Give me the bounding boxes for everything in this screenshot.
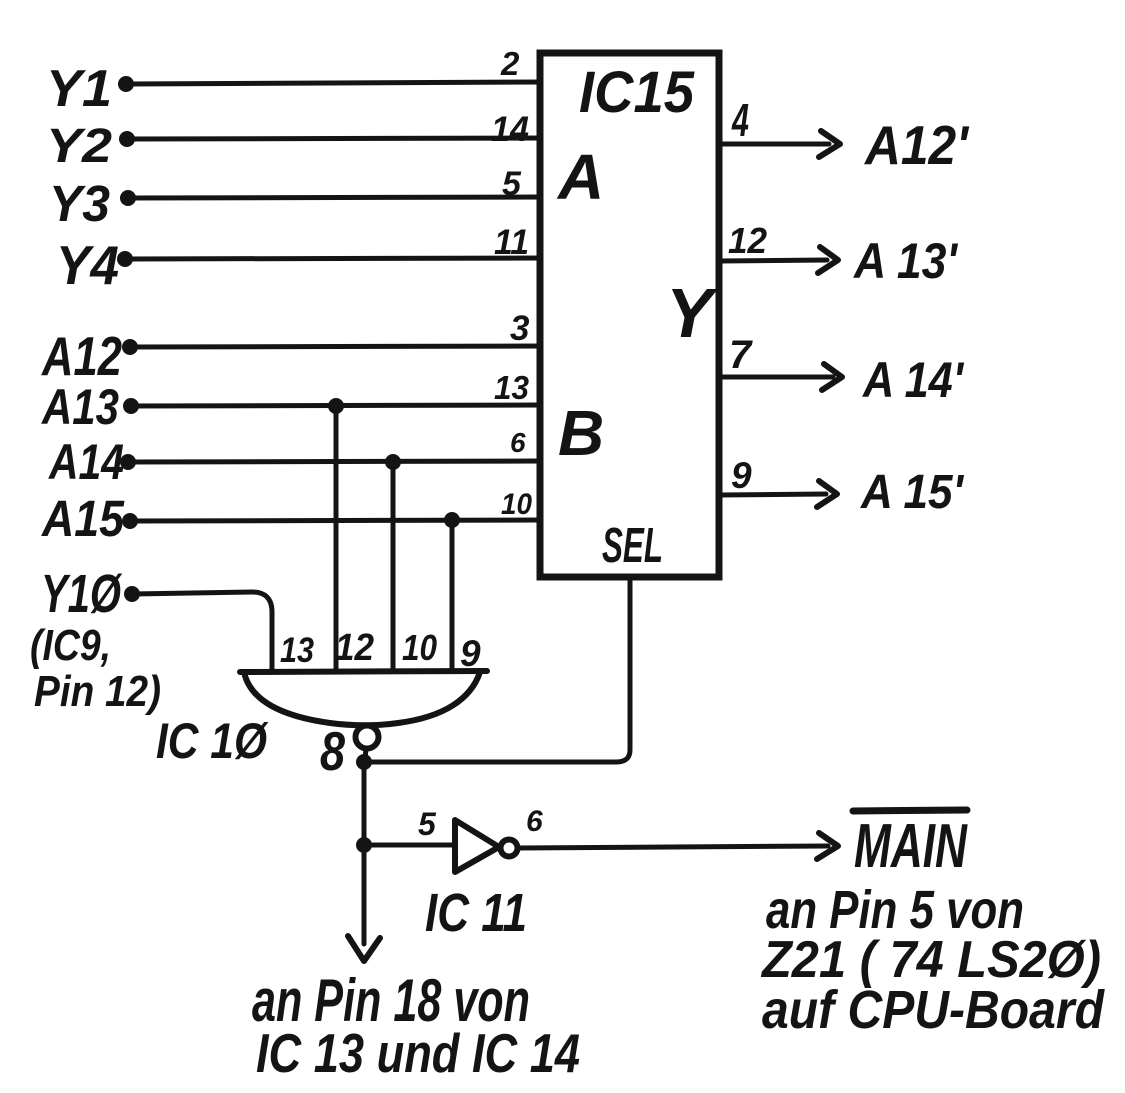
svg-text:6: 6 [510, 427, 526, 458]
svg-text:7: 7 [729, 333, 753, 377]
svg-text:A: A [556, 141, 604, 213]
svg-text:A 15': A 15' [860, 466, 964, 519]
svg-text:Y4: Y4 [56, 234, 119, 296]
svg-text:Pin 12): Pin 12) [34, 667, 161, 716]
svg-text:Y3: Y3 [49, 175, 110, 232]
svg-text:6: 6 [526, 805, 543, 838]
svg-text:Y1: Y1 [46, 60, 112, 118]
svg-text:Y: Y [666, 274, 718, 352]
svg-text:B: B [558, 397, 604, 469]
svg-text:9: 9 [731, 455, 752, 496]
svg-text:auf CPU-Board: auf CPU-Board [762, 980, 1105, 1040]
svg-text:3: 3 [510, 309, 530, 348]
svg-text:SEL: SEL [602, 519, 663, 573]
svg-text:A12: A12 [40, 325, 122, 387]
svg-text:Y1Ø: Y1Ø [41, 564, 122, 624]
svg-text:A12': A12' [863, 114, 970, 176]
svg-text:10: 10 [402, 627, 437, 668]
svg-text:A14: A14 [47, 434, 124, 490]
svg-text:14: 14 [491, 110, 529, 149]
svg-text:A 13': A 13' [852, 233, 959, 289]
svg-text:IC 13 und IC 14: IC 13 und IC 14 [256, 1022, 580, 1084]
svg-text:Y2: Y2 [46, 120, 112, 173]
svg-text:IC 11: IC 11 [425, 883, 527, 943]
svg-text:8: 8 [320, 720, 345, 782]
svg-text:IC 1Ø: IC 1Ø [156, 713, 269, 769]
svg-text:MAIN: MAIN [854, 812, 968, 881]
svg-text:2: 2 [500, 45, 520, 82]
svg-text:(IC9,: (IC9, [30, 621, 111, 670]
svg-text:IC15: IC15 [579, 60, 695, 125]
svg-text:13: 13 [494, 369, 529, 406]
svg-text:4: 4 [731, 94, 749, 146]
svg-text:5: 5 [418, 806, 437, 842]
svg-text:11: 11 [494, 223, 529, 262]
svg-text:A15: A15 [40, 490, 124, 547]
svg-text:5: 5 [502, 165, 522, 203]
svg-text:12: 12 [335, 627, 374, 669]
svg-text:10: 10 [501, 488, 532, 521]
svg-text:13: 13 [280, 631, 314, 670]
svg-text:A13: A13 [40, 379, 119, 435]
svg-text:A 14': A 14' [861, 352, 965, 408]
svg-text:12: 12 [728, 220, 767, 261]
svg-text:9: 9 [460, 633, 481, 674]
